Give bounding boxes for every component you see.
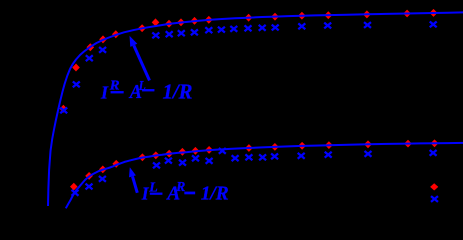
svg-text:1/R: 1/R	[201, 183, 229, 204]
svg-text:I: I	[100, 82, 109, 102]
annotation: I^R - A^L - 1/R	[100, 78, 193, 104]
svg-text:R: R	[175, 180, 185, 195]
svg-text:1/R: 1/R	[163, 79, 193, 103]
bottom fit curve	[66, 143, 463, 208]
bottom series red diamond markers	[70, 139, 438, 190]
svg-text:R: R	[109, 78, 120, 93]
legend blue x	[431, 196, 438, 202]
top series blue x markers	[60, 22, 437, 114]
legend red diamond	[430, 183, 438, 190]
top fit curve	[48, 12, 463, 206]
bottom series blue x markers	[72, 148, 437, 196]
annotation arrow to bottom curve	[133, 176, 138, 192]
top series red diamond markers	[60, 9, 438, 113]
annotation: I^L - A^R - 1/R	[141, 180, 229, 204]
annotation arrow to top curve	[134, 45, 150, 80]
top series outlier filled diamond	[152, 18, 160, 26]
